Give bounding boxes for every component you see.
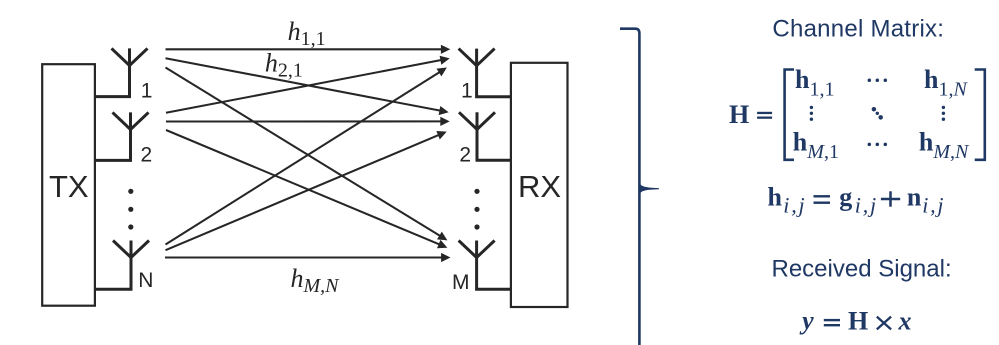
svg-text:i,j: i,j bbox=[783, 193, 806, 218]
svg-text:h1,1: h1,1 bbox=[288, 17, 326, 50]
TX box bbox=[42, 64, 95, 306]
channel path h2,1 arrow A2 to R1 bbox=[166, 60, 442, 113]
channel path AN to R2 bbox=[166, 135, 440, 251]
TX antenna 1 feed wire bbox=[95, 48, 130, 96]
svg-text:y: y bbox=[799, 306, 814, 335]
curly brace bbox=[620, 29, 639, 345]
TX ellipsis dots bbox=[128, 189, 133, 194]
svg-text:i,j: i,j bbox=[922, 193, 945, 218]
svg-text:Channel Matrix:: Channel Matrix: bbox=[772, 16, 944, 43]
svg-text:2: 2 bbox=[459, 143, 471, 166]
RX antenna 2 feed wire bbox=[477, 112, 511, 160]
svg-text:2: 2 bbox=[141, 143, 153, 166]
RX ellipsis dots bbox=[474, 189, 479, 194]
RX antenna 1 feed wire bbox=[477, 49, 511, 97]
svg-text:h2,1: h2,1 bbox=[265, 48, 303, 81]
channel path A1 to RM bbox=[166, 68, 441, 237]
matrix ddots bbox=[872, 107, 877, 112]
TX antenna 2 feed wire bbox=[95, 112, 131, 160]
RX box bbox=[511, 63, 568, 307]
svg-text:1: 1 bbox=[141, 79, 153, 102]
svg-text:n: n bbox=[907, 183, 922, 212]
channel path A2 to RM bbox=[166, 130, 440, 245]
svg-text:g: g bbox=[839, 183, 852, 212]
RX antenna M feed wire bbox=[477, 241, 511, 290]
channel path hM,N arrow AN to RM bbox=[165, 256, 443, 258]
svg-text:H: H bbox=[729, 100, 749, 129]
curly brace middle point bbox=[639, 182, 659, 195]
matrix row1 cdots bbox=[868, 78, 872, 82]
TX antenna 2 arms bbox=[113, 112, 149, 129]
svg-text:i,j: i,j bbox=[855, 193, 878, 218]
svg-text:hM,N: hM,N bbox=[919, 128, 970, 164]
matrix vdots col3 bbox=[942, 106, 945, 109]
RX antenna M arms bbox=[459, 241, 495, 258]
svg-text:M: M bbox=[452, 271, 470, 294]
svg-text:h: h bbox=[768, 183, 783, 212]
svg-text:h1,1: h1,1 bbox=[795, 65, 834, 101]
RX antenna 1 arms bbox=[459, 49, 495, 66]
svg-text:H: H bbox=[848, 307, 868, 336]
matrix left bracket bbox=[785, 70, 794, 160]
channel path A1 to R2 bbox=[166, 58, 441, 111]
channel path h1,1 arrow A1 to R1 bbox=[166, 48, 443, 50]
svg-text:TX: TX bbox=[49, 169, 89, 204]
svg-text:hM,1: hM,1 bbox=[793, 128, 839, 164]
svg-text:hM,N: hM,N bbox=[291, 264, 341, 297]
svg-text:Received Signal:: Received Signal: bbox=[772, 256, 952, 283]
svg-text:N: N bbox=[138, 269, 153, 292]
matrix vdots col1 bbox=[810, 106, 813, 109]
svg-text:h1,N: h1,N bbox=[924, 65, 968, 101]
TX antenna N feed wire bbox=[95, 241, 131, 290]
svg-text:RX: RX bbox=[518, 169, 561, 204]
channel path A2 to R2 bbox=[166, 120, 442, 122]
channel path AN to R1 bbox=[166, 72, 441, 245]
TX antenna 1 arms bbox=[112, 48, 148, 65]
TX antenna N arms bbox=[113, 241, 149, 258]
matrix row3 cdots bbox=[868, 143, 872, 147]
RX antenna 2 arms bbox=[459, 112, 495, 129]
svg-text:x: x bbox=[898, 307, 912, 336]
matrix right bracket bbox=[975, 70, 985, 160]
svg-text:1: 1 bbox=[461, 79, 473, 102]
